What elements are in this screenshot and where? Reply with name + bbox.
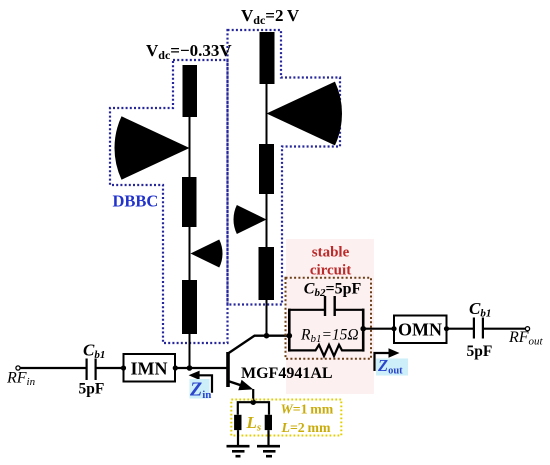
svg-text:5pF: 5pF bbox=[79, 381, 105, 398]
microstrip TL4 right bbox=[260, 32, 275, 84]
svg-text:stable: stable bbox=[312, 245, 350, 261]
ground right bbox=[257, 446, 280, 456]
block OMN bbox=[394, 316, 447, 344]
wire stable to OMN bbox=[363, 328, 394, 330]
microstrip TL3 left bbox=[182, 280, 197, 334]
wire inductor right to ground bbox=[267, 430, 269, 446]
terminal RFin bbox=[16, 366, 20, 370]
wire source down bbox=[252, 389, 254, 402]
node gate junction bbox=[187, 365, 193, 371]
stable network right bar bbox=[362, 309, 365, 352]
capacitor Cb1 input plate2 bbox=[95, 359, 97, 381]
wire Cb1 to IMN bbox=[97, 367, 124, 369]
capacitor Cb1 output plate1 bbox=[473, 318, 475, 339]
wire inductor left to ground bbox=[237, 430, 239, 446]
radial stub left small bbox=[191, 239, 223, 267]
yellow box bbox=[231, 400, 341, 436]
svg-text:IMN: IMN bbox=[131, 359, 168, 379]
node stable out bbox=[360, 326, 366, 332]
Zout arrow bbox=[375, 353, 391, 371]
svg-text:Vdc=2 V: Vdc=2 V bbox=[241, 6, 300, 27]
wire IMN to gate bbox=[175, 367, 228, 369]
microstrip TL1 left bbox=[183, 65, 198, 117]
resistor Rb1 zigzag bbox=[289, 345, 363, 356]
capacitor Cb2 plate2 bbox=[334, 296, 336, 316]
block IMN bbox=[124, 354, 176, 382]
transistor source arrow bbox=[238, 380, 253, 390]
node drain junction bbox=[264, 333, 270, 339]
wire RFin to Cb1 bbox=[21, 367, 87, 369]
ground left bbox=[227, 446, 250, 456]
svg-text:circuit: circuit bbox=[310, 263, 351, 279]
svg-text:Cb2=5pF: Cb2=5pF bbox=[304, 281, 362, 300]
microstrip TL5 right bbox=[259, 144, 274, 194]
transistor source lead bbox=[228, 381, 247, 387]
capacitor Cb2 plate1 bbox=[324, 296, 326, 316]
capacitor Cb1 output plate2 bbox=[482, 318, 484, 339]
stable network left bar bbox=[288, 309, 291, 352]
inductor Ls left bbox=[234, 415, 241, 430]
wire left-branch vertical bbox=[189, 65, 191, 368]
Zin arrow bbox=[197, 375, 212, 392]
svg-text:MGF4941AL: MGF4941AL bbox=[241, 365, 333, 382]
svg-text:L=2 mm: L=2 mm bbox=[281, 420, 331, 435]
wire right-branch vertical bbox=[266, 32, 268, 336]
wire Cb1 to RFout bbox=[484, 328, 525, 330]
bias box left (DBBC) bbox=[110, 60, 228, 343]
wire source node split bbox=[250, 399, 256, 405]
stable circuit box bbox=[286, 278, 372, 359]
transistor drain lead bbox=[228, 336, 290, 354]
radial stub left big bbox=[115, 116, 190, 179]
node OMN left bbox=[391, 326, 396, 331]
node OMN right bbox=[444, 326, 449, 331]
radial stub right big bbox=[267, 82, 343, 146]
node IMN left bbox=[121, 365, 126, 370]
capacitor Cb1 input plate1 bbox=[86, 359, 88, 381]
svg-text:DBBC: DBBC bbox=[113, 192, 159, 211]
radial stub right small bbox=[233, 205, 266, 234]
stable-circuit pink highlight bbox=[286, 239, 374, 394]
inductor Ls right bbox=[265, 415, 272, 430]
wire cap branch left bbox=[289, 309, 324, 311]
Zin highlight bbox=[190, 379, 210, 399]
Zout highlight bbox=[376, 359, 408, 376]
svg-text:5pF: 5pF bbox=[467, 343, 493, 360]
microstrip TL6 right bbox=[259, 247, 275, 300]
node IMN right bbox=[173, 365, 178, 370]
svg-text:W=1 mm: W=1 mm bbox=[281, 402, 334, 417]
transistor Q1 MGF4941AL gate bar bbox=[226, 352, 230, 387]
svg-text:Rb1=15Ω: Rb1=15Ω bbox=[300, 327, 359, 346]
wire OMN to Cb1 out bbox=[447, 328, 474, 330]
microstrip TL2 left bbox=[182, 177, 197, 227]
terminal RFout bbox=[525, 327, 529, 331]
node stable in bbox=[287, 333, 293, 339]
wire cap branch right bbox=[336, 309, 364, 311]
svg-text:OMN: OMN bbox=[398, 320, 442, 340]
bias box right bbox=[228, 30, 341, 305]
